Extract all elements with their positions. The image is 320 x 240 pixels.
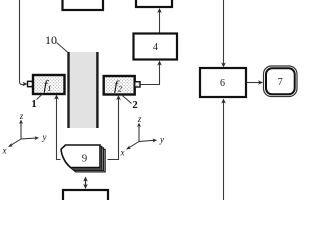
arrowhead into box 7 — [258, 80, 263, 85]
wire transducer 2 to box 4 — [139, 63, 160, 85]
svg-text:7: 7 — [278, 77, 283, 88]
box 7 outer rounded border — [264, 66, 298, 97]
wire sample stage to transducer 1 — [57, 97, 61, 160]
svg-text:9: 9 — [82, 153, 88, 165]
svg-text:z: z — [137, 114, 142, 124]
left axes arrowheads — [19, 120, 23, 125]
svg-text:x: x — [120, 148, 125, 158]
column 10 left wall — [67, 52, 69, 128]
wire from top edge into box 6 — [223, 0, 225, 65]
leader line for label 2 — [122, 95, 132, 104]
wire from bottom edge into box 6 — [223, 102, 225, 201]
right coordinate axes — [129, 125, 155, 148]
box 7 inner rounded border — [266, 68, 295, 94]
double arrow between stage and bottom box — [85, 180, 87, 187]
svg-text:4: 4 — [153, 42, 158, 53]
transducer 1 connector — [28, 81, 34, 86]
box (cut off, top-left) — [63, 0, 104, 10]
leader line for label 10 — [57, 43, 69, 53]
arrowhead into f1 bottom — [54, 95, 59, 100]
svg-text:1: 1 — [31, 98, 37, 110]
box 6 — [200, 68, 246, 97]
arrowhead into f2 bottom — [116, 95, 121, 100]
column 10 right wall — [96, 52, 98, 128]
box 4 — [134, 34, 178, 60]
transducer 2 box f2 — [104, 76, 135, 95]
sample stack back sheet 2 — [65, 148, 104, 171]
transducer 1 box f1 — [33, 75, 65, 94]
svg-text:z: z — [19, 111, 24, 121]
svg-text:x: x — [2, 146, 7, 156]
arrowhead into box 6 top — [221, 63, 226, 68]
leader line for label 1 — [37, 94, 44, 100]
sample stack back sheet 3 — [66, 149, 105, 172]
sample stage 9 front sheet — [61, 145, 100, 168]
svg-text:10: 10 — [45, 33, 57, 47]
wire sample stage to transducer 2 — [108, 98, 119, 160]
wire from top-left edge into transducer 1 connector — [20, 0, 25, 85]
left coordinate axes — [11, 122, 37, 146]
wire box 6 to box 7 — [247, 82, 260, 84]
sample stack back sheet 1 — [63, 147, 102, 170]
transducer 2 connector — [135, 82, 140, 87]
svg-text:y: y — [42, 132, 47, 142]
wire box 4 to top-middle box — [159, 11, 161, 33]
box (cut off, top-middle) — [136, 0, 172, 7]
svg-text:y: y — [159, 135, 164, 145]
svg-text:2: 2 — [132, 99, 138, 111]
column 10 gray body — [70, 52, 97, 128]
arrowhead into box 4 bottom — [157, 61, 162, 66]
arrowhead into box 6 bottom — [221, 99, 226, 104]
bottom box (cut off) — [63, 190, 108, 205]
right axes arrowheads — [137, 123, 141, 128]
svg-text:6: 6 — [220, 78, 225, 89]
arrowhead into transducer 1 connector — [23, 82, 28, 86]
arrowhead into top-middle box — [157, 8, 162, 13]
